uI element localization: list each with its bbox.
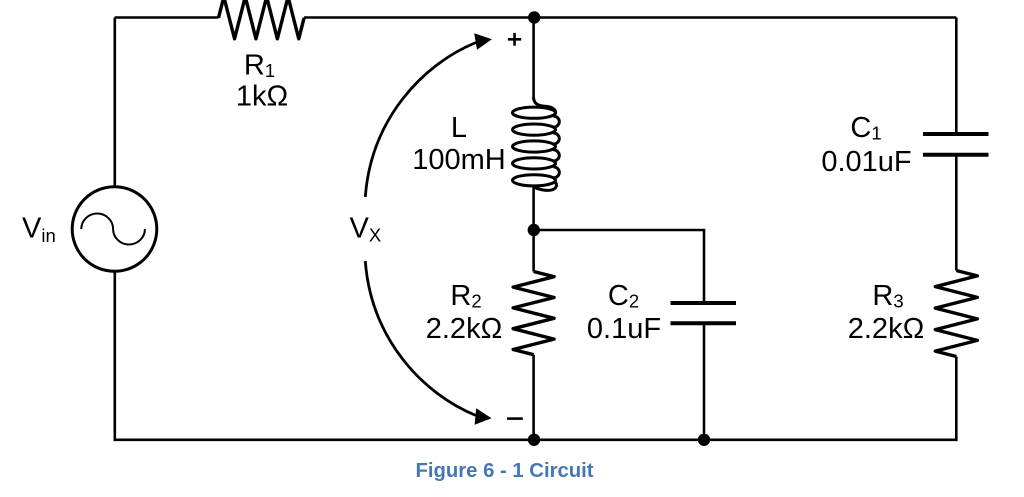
wire C2 bottom to node D xyxy=(703,323,706,440)
wire R2 to bottom node C xyxy=(532,355,535,440)
svg-text:1kΩ: 1kΩ xyxy=(236,81,288,113)
wire top-left: left corner to R1 xyxy=(115,16,219,19)
Vx lower arrowhead xyxy=(475,408,492,425)
svg-text:2.2kΩ: 2.2kΩ xyxy=(426,313,503,345)
capacitor C2 top plate xyxy=(671,301,737,305)
wire top-middle: R1 to node A xyxy=(304,16,533,19)
inductor L loop 1 xyxy=(513,107,556,118)
wire node B to C2 top xyxy=(534,230,704,303)
capacitor C1 bottom plate xyxy=(923,153,989,157)
node B junction dot xyxy=(528,224,540,236)
inductor L loop 2 xyxy=(513,124,556,135)
inductor L loop 5 xyxy=(513,175,556,186)
node C junction dot xyxy=(528,434,540,446)
wire middle: inductor to node B xyxy=(532,187,535,232)
inductor L connector 2-3 xyxy=(553,133,559,144)
wire C1 to R3 xyxy=(955,155,958,271)
inductor L connector 4-5 xyxy=(553,167,559,178)
wire bottom: bottom-left corner to bottom-right corner xyxy=(115,438,957,441)
inductor L loop 4 xyxy=(513,158,556,169)
Vx upper measurement arc xyxy=(365,43,476,198)
wire middle upper: node A down to inductor xyxy=(532,18,535,100)
node A junction dot xyxy=(528,11,540,23)
resistor R3 xyxy=(935,271,977,357)
wire top-right: node A to top-right corner xyxy=(534,16,957,19)
resistor R2 xyxy=(513,272,554,355)
capacitor C2 bottom plate xyxy=(671,321,737,325)
inductor L connector 1-2 xyxy=(553,116,559,127)
svg-text:Figure 6 - 1 Circuit: Figure 6 - 1 Circuit xyxy=(415,460,593,482)
Vx upper arrowhead xyxy=(474,33,492,50)
svg-text:100mH: 100mH xyxy=(412,144,506,176)
wire left lower: source to bottom-left corner xyxy=(114,271,117,441)
capacitor C1 top plate xyxy=(923,132,989,136)
node D junction dot xyxy=(698,434,710,446)
Vx lower measurement arc xyxy=(365,261,476,416)
source Vin sine wave xyxy=(81,213,145,244)
svg-text:0.01uF: 0.01uF xyxy=(821,146,911,178)
inductor L connector 3-4 xyxy=(553,150,559,161)
svg-text:0.1uF: 0.1uF xyxy=(587,313,661,345)
inductor L exit hook xyxy=(534,182,557,191)
plus sign xyxy=(508,33,521,46)
source Vin circle xyxy=(72,187,157,272)
resistor R1 xyxy=(219,0,305,39)
wire node B down to R2 xyxy=(532,230,535,272)
wire R3 to bottom-right corner xyxy=(955,357,958,442)
wire left upper: corner down to source xyxy=(114,18,117,188)
svg-text:2.2kΩ: 2.2kΩ xyxy=(848,313,925,345)
svg-text:L: L xyxy=(451,112,467,144)
wire right upper: top-right corner down to C1 xyxy=(955,18,958,135)
minus sign xyxy=(507,417,523,420)
inductor L entry hook xyxy=(534,98,556,113)
inductor L loop 3 xyxy=(513,141,556,152)
